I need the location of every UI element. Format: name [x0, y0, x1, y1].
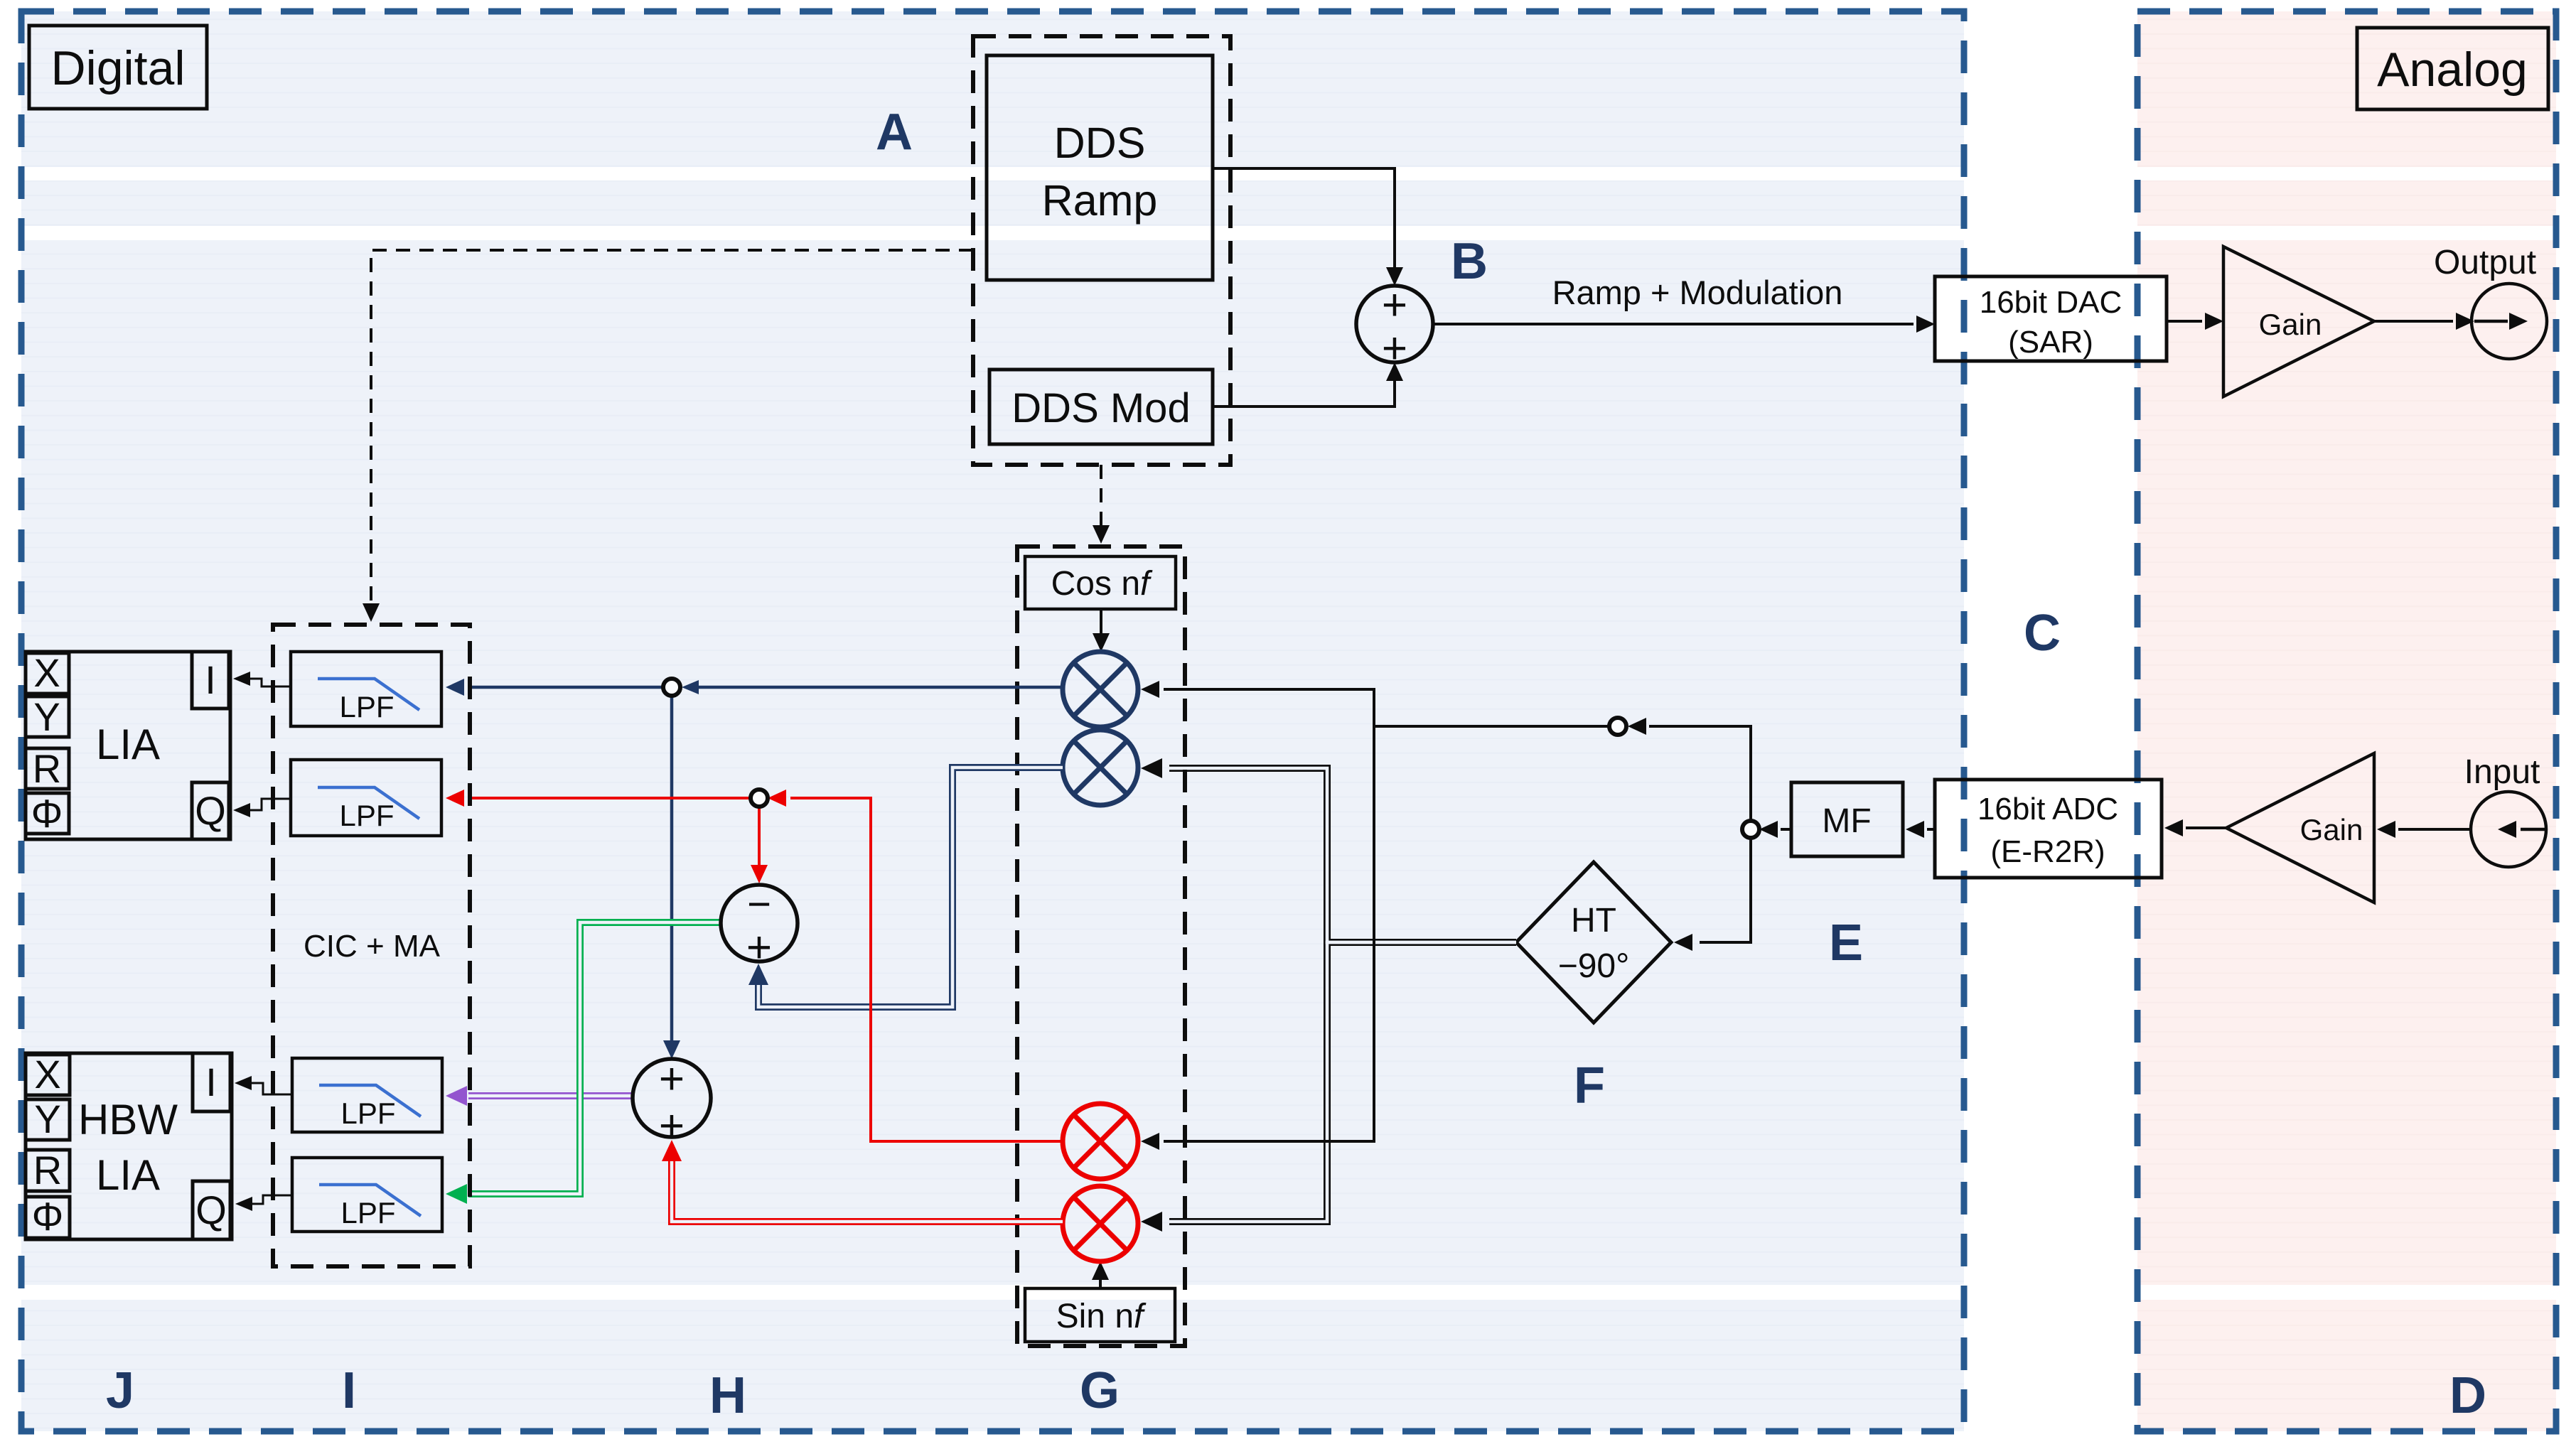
Analog label	[2357, 28, 2548, 109]
svg-text:J: J	[106, 1362, 134, 1419]
svg-text:I: I	[205, 657, 216, 702]
wire LPF1 to LIA I port	[233, 672, 291, 686]
ADC box white underlay	[1935, 780, 2162, 878]
summing junction 2 (plus/plus)	[633, 1055, 711, 1151]
wire node T branch down to red mixer 1	[1164, 726, 1374, 1141]
svg-text:+: +	[1382, 324, 1407, 373]
wire node E up-left to node T	[1649, 726, 1751, 821]
dashed box A (DDS group)	[973, 36, 1230, 465]
wire Cos nf to mixer 1	[1100, 609, 1102, 636]
LIA Q port	[192, 782, 229, 839]
svg-text:+: +	[1382, 281, 1407, 330]
DDS Ramp block	[987, 55, 1213, 280]
svg-text:HBW: HBW	[78, 1096, 178, 1143]
wire LPF3 to HBW I port	[235, 1076, 292, 1094]
svg-text:D: D	[2449, 1367, 2486, 1424]
svg-text:Analog: Analog	[2377, 43, 2528, 97]
svg-text:+: +	[659, 1102, 685, 1151]
svg-text:(E-R2R): (E-R2R)	[1990, 834, 2105, 869]
wire LPF4 to HBW Q port	[235, 1195, 292, 1211]
MF block	[1791, 782, 1903, 856]
dashed wire DDS Mod to G box	[1100, 465, 1102, 527]
svg-text:G: G	[1080, 1362, 1120, 1419]
wire MF to node E	[1781, 828, 1791, 831]
red wire node H2 down to junction 1	[758, 807, 761, 868]
DAC box white underlay	[1935, 276, 2167, 361]
red double wire mixer 4 to junction 2	[662, 1140, 1063, 1222]
dashed box G (reference oscillators and mixers)	[1017, 546, 1185, 1346]
Analog region background	[2137, 11, 2556, 1431]
DDS Mod block	[989, 370, 1213, 444]
svg-text:Φ: Φ	[32, 1194, 64, 1239]
red wire mixer 3 to node H2 and LPF2	[446, 790, 1063, 1141]
Cos nf block	[1025, 556, 1176, 609]
svg-text:Sin nf: Sin nf	[1056, 1298, 1147, 1335]
white band 3	[0, 1285, 2576, 1300]
svg-text:H: H	[709, 1367, 746, 1424]
svg-text:+: +	[659, 1055, 685, 1104]
LPF1 block	[291, 652, 441, 726]
output gain amplifier	[2223, 247, 2374, 397]
svg-text:HT: HT	[1571, 902, 1616, 939]
Digital region dashed border	[21, 11, 1964, 1431]
LIA R port	[26, 746, 69, 791]
svg-text:E: E	[1829, 915, 1863, 971]
HBW Y port	[26, 1097, 70, 1141]
HBW R port	[26, 1148, 70, 1192]
navy wire mixer 1 to node H1 and LPF1	[446, 679, 1063, 696]
navy wire node H1 down to junction 2	[670, 696, 674, 1043]
svg-text:I: I	[342, 1362, 356, 1419]
wire DDS Mod to summer B	[1213, 367, 1395, 406]
svg-text:R: R	[33, 746, 61, 791]
svg-text:Output: Output	[2434, 244, 2536, 281]
wire DDS Ramp to summer B	[1213, 168, 1395, 281]
svg-text:Ramp + Modulation: Ramp + Modulation	[1552, 274, 1843, 311]
mixer 2 (cos, hilbert)	[1063, 730, 1138, 805]
svg-text:LIA: LIA	[96, 721, 160, 768]
HBW LIA block	[26, 1053, 232, 1239]
wire node E down to HT	[1700, 838, 1751, 942]
Input port circle	[2464, 753, 2546, 867]
dashed box I (CIC + MA filters)	[273, 625, 470, 1266]
output port circle	[2434, 244, 2547, 359]
svg-text:Cos nf: Cos nf	[1051, 565, 1153, 603]
input gain amplifier	[2226, 753, 2374, 903]
node H1	[663, 679, 680, 696]
svg-text:F: F	[1574, 1057, 1605, 1114]
svg-text:Input: Input	[2464, 753, 2540, 791]
white band 1	[0, 167, 2576, 181]
mixer 1 (cos, in-phase)	[1063, 652, 1138, 727]
HT output double wire to mixers 2 and 4	[1141, 758, 1516, 1232]
navy double wire mixer 2 to summer H1	[748, 768, 1063, 1007]
wire summer B to DAC	[1433, 323, 1914, 325]
purple double wire junction 2 to LPF3	[446, 1086, 633, 1106]
svg-text:DDS Mod: DDS Mod	[1011, 385, 1190, 431]
svg-text:A: A	[876, 104, 913, 161]
HT -90 Hilbert transformer	[1516, 862, 1671, 1023]
svg-text:B: B	[1451, 233, 1488, 290]
16bit DAC (SAR) block	[1935, 276, 2167, 361]
svg-text:−90°: −90°	[1558, 947, 1630, 985]
svg-text:−: −	[747, 881, 771, 927]
Digital region background	[21, 11, 1964, 1431]
svg-text:16bit DAC: 16bit DAC	[1980, 285, 2122, 320]
svg-text:Q: Q	[195, 1188, 227, 1232]
HBW I port	[193, 1053, 230, 1111]
node T	[1609, 718, 1626, 735]
dashed wire DDS group to CIC box	[363, 250, 973, 622]
svg-text:Gain: Gain	[2259, 308, 2322, 341]
wire ADC to MF	[1927, 828, 1935, 831]
svg-text:LPF: LPF	[339, 799, 394, 832]
node H2	[751, 790, 768, 807]
svg-text:C: C	[2024, 605, 2061, 662]
svg-text:16bit ADC: 16bit ADC	[1977, 792, 2118, 826]
svg-text:LIA: LIA	[96, 1151, 160, 1199]
svg-text:I: I	[205, 1060, 217, 1104]
svg-text:X: X	[33, 650, 60, 695]
svg-text:R: R	[33, 1148, 62, 1192]
LIA X port	[26, 650, 69, 695]
node E	[1742, 821, 1759, 838]
wire Sin nf to mixer 4	[1099, 1277, 1102, 1288]
16bit ADC (E-R2R) block	[1935, 780, 2162, 878]
wire input gain to ADC	[2186, 826, 2226, 829]
svg-text:+: +	[746, 923, 772, 972]
mixer 4 (sin, hilbert)	[1063, 1186, 1138, 1261]
summing junction B	[1356, 281, 1433, 373]
svg-text:DDS: DDS	[1054, 119, 1146, 167]
LIA Phi port	[26, 791, 69, 836]
wire input to input gain	[2398, 828, 2471, 831]
svg-text:Gain: Gain	[2300, 813, 2363, 846]
LIA block	[26, 652, 230, 839]
green double wire junction 1 to LPF4	[446, 922, 721, 1204]
wire node T to mixers (cos path)	[1164, 689, 1609, 726]
svg-text:MF: MF	[1822, 802, 1871, 840]
LIA Y port	[26, 694, 69, 739]
svg-text:Y: Y	[34, 1097, 60, 1141]
LPF2 block	[291, 760, 441, 836]
svg-text:Ramp: Ramp	[1042, 176, 1158, 225]
svg-text:LPF: LPF	[339, 690, 394, 723]
svg-text:(SAR): (SAR)	[2008, 325, 2093, 360]
wire DAC to output gain	[2167, 320, 2202, 323]
wire LPF2 to LIA Q port	[233, 799, 291, 817]
svg-text:X: X	[34, 1052, 60, 1097]
svg-text:Y: Y	[33, 694, 60, 739]
svg-text:Φ: Φ	[31, 791, 63, 836]
mixer 3 (sin, in-phase)	[1063, 1104, 1138, 1179]
svg-text:Digital: Digital	[51, 41, 186, 95]
HBW X port	[26, 1052, 70, 1097]
svg-text:Q: Q	[195, 788, 226, 833]
svg-text:LPF: LPF	[340, 1097, 395, 1130]
LPF4 block	[292, 1158, 442, 1232]
svg-text:CIC + MA: CIC + MA	[304, 929, 441, 964]
wire gain to output	[2374, 320, 2453, 323]
svg-text:LPF: LPF	[340, 1196, 395, 1229]
white band 2	[0, 226, 2576, 240]
Analog region dashed border	[2137, 11, 2556, 1431]
LPF3 block	[292, 1058, 442, 1132]
LIA I port	[192, 652, 229, 709]
Digital label	[29, 26, 207, 109]
summing junction 1 (minus/plus)	[721, 881, 798, 972]
Sin nf block	[1025, 1288, 1175, 1342]
HBW Phi port	[26, 1194, 70, 1239]
HBW Q port	[193, 1181, 230, 1239]
